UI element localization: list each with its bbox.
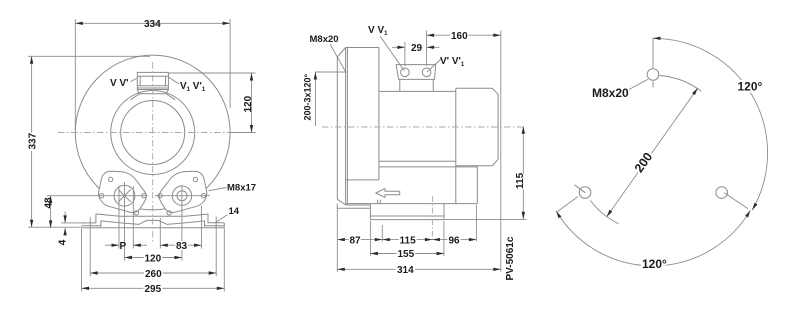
svg-text:M8x20: M8x20	[310, 34, 339, 45]
motor body	[456, 88, 498, 165]
svg-text:PV-5061c: PV-5061c	[505, 236, 516, 280]
middle bore circle	[111, 91, 195, 175]
right pad hole bottom	[167, 211, 171, 215]
260 extensions	[90, 217, 216, 277]
svg-text:120°: 120°	[738, 80, 763, 94]
diameter 200 line	[607, 88, 698, 217]
V V' leader	[131, 78, 138, 82]
14 leader	[215, 215, 227, 223]
svg-text:V V': V V'	[110, 78, 129, 89]
arc 120 top right	[653, 38, 768, 210]
side foot right edge	[443, 204, 445, 220]
295 extensions	[82, 229, 225, 292]
dim 334 extension lines	[75, 19, 230, 130]
M8x20 side leader	[330, 44, 346, 73]
top hole tick	[652, 82, 654, 88]
P extension lines	[119, 186, 133, 249]
flange bottom edge	[346, 204, 371, 206]
svg-text:V' V'1: V' V'1	[440, 56, 465, 68]
bolt hole top	[647, 69, 659, 81]
314 extensions	[337, 31, 501, 272]
M8x20 right leader	[629, 79, 648, 89]
svg-text:14: 14	[229, 206, 240, 217]
port P cross	[118, 190, 130, 202]
SIDE VIEW	[337, 48, 498, 220]
left pad hole left	[99, 194, 103, 198]
314 dim line	[337, 268, 501, 270]
centerline horizontal side view	[322, 126, 526, 128]
svg-text:334: 334	[144, 19, 161, 30]
body top	[379, 90, 456, 92]
svg-text:115: 115	[400, 235, 417, 246]
160 dim line	[427, 34, 501, 36]
svg-text:83: 83	[176, 241, 188, 252]
front view texts	[27, 19, 256, 295]
200-3x120 arrow line	[314, 72, 316, 126]
flange top edge	[346, 47, 379, 49]
V' V'1 side leader	[427, 58, 442, 72]
outer housing circle	[75, 55, 230, 210]
svg-text:120: 120	[243, 95, 254, 112]
29 dim arrows outside	[392, 46, 405, 48]
port thread lines	[137, 76, 168, 88]
svg-text:96: 96	[449, 235, 461, 246]
29 extension lines	[405, 31, 427, 67]
svg-text:337: 337	[27, 132, 38, 149]
body right edge	[455, 88, 457, 203]
dim 337 line	[31, 56, 33, 227]
side foot left edge	[369, 204, 371, 220]
svg-text:155: 155	[398, 249, 415, 260]
dim 120 right line	[251, 73, 253, 133]
base inner profile	[82, 220, 225, 226]
left pad hole top	[109, 177, 113, 181]
right pad port circle outer	[172, 186, 191, 205]
svg-text:87: 87	[350, 235, 362, 246]
83 dim line	[160, 244, 201, 246]
87 dim line	[337, 239, 382, 241]
120 bottom dim line	[125, 257, 182, 259]
port neck flare	[131, 90, 176, 100]
svg-text:29: 29	[411, 43, 423, 54]
svg-text:M8x20: M8x20	[592, 86, 629, 100]
flange front double lines	[346, 48, 348, 206]
svg-text:200-3x120°: 200-3x120°	[303, 73, 313, 120]
left foot pad	[99, 171, 147, 212]
BOLT CIRCLE VIEW	[575, 69, 728, 199]
svg-text:4: 4	[57, 239, 68, 245]
left pad hole bottom	[134, 211, 138, 215]
side port circle left	[401, 68, 410, 77]
260 dim line	[90, 272, 216, 274]
drain ticks	[378, 200, 381, 204]
svg-text:48: 48	[44, 197, 55, 209]
base bottom line	[82, 223, 225, 228]
base outer profile	[82, 214, 225, 223]
svg-text:160: 160	[451, 31, 468, 42]
svg-text:295: 295	[145, 284, 162, 295]
200-3x120 extension	[315, 71, 346, 73]
V1 V'1 leader	[168, 77, 179, 84]
right 115 dim line	[522, 126, 524, 219]
120 bottom extensions	[125, 182, 182, 261]
dim 4 extension	[61, 222, 85, 224]
dim 48 extension	[47, 195, 210, 197]
bottom lip	[337, 204, 370, 209]
side foot inner line	[370, 215, 444, 217]
side foot bottom	[370, 219, 444, 221]
flow direction arrow	[376, 189, 400, 198]
left hole tick	[575, 185, 586, 193]
flange back line	[378, 48, 380, 180]
left pad hole right	[142, 194, 146, 198]
flange chamfer top	[337, 48, 345, 58]
inner bore circle	[121, 101, 185, 165]
flange chamfer bottom	[337, 199, 345, 205]
body seam lower	[379, 166, 477, 168]
left hole radial	[557, 197, 579, 213]
side port circle right	[422, 68, 431, 77]
flange block bottom	[346, 179, 379, 181]
right 115 extension	[444, 218, 526, 220]
right pad hole top	[193, 177, 197, 181]
svg-text:120°: 120°	[642, 257, 667, 271]
svg-text:V V1: V V1	[368, 25, 388, 37]
83 extension lines	[160, 206, 201, 249]
top port block trapezoid	[396, 65, 436, 80]
155 dim line	[370, 253, 444, 255]
bolt hole left	[579, 187, 591, 199]
M8x17 leader	[209, 188, 227, 191]
centerline mount hole side view	[431, 196, 433, 242]
right foot pad	[159, 171, 207, 212]
svg-text:P: P	[120, 241, 127, 252]
dim 337 extensions	[28, 56, 150, 227]
right pad port circle inner	[177, 191, 187, 201]
body seam upper	[379, 160, 456, 162]
body bottom	[346, 203, 477, 205]
87 115 96 extensions	[370, 205, 476, 256]
right pad hole left	[158, 194, 162, 198]
P dim arrows outside	[105, 244, 119, 246]
flange face line	[336, 57, 338, 199]
dim 120 right extensions	[168, 73, 255, 133]
svg-text:260: 260	[145, 269, 162, 280]
rear housing lower	[476, 166, 478, 204]
svg-text:V1 V'1: V1 V'1	[180, 81, 206, 93]
left pad port circle P	[114, 185, 135, 206]
top port block	[137, 72, 168, 89]
top port neck	[400, 79, 433, 91]
svg-text:M8x17: M8x17	[227, 183, 256, 194]
top hole radial line	[652, 38, 654, 69]
295 dim line	[82, 287, 225, 289]
V V1 side leader	[380, 36, 405, 71]
bolt hole right	[716, 187, 728, 199]
115 dim line	[382, 239, 432, 241]
arc 120 bottom	[556, 210, 750, 266]
bolt circle arc top segment	[660, 76, 702, 92]
right hole radial	[724, 193, 748, 209]
dim 4 arrows	[64, 212, 66, 223]
centerline vertical front view	[152, 62, 154, 243]
side view texts	[303, 25, 527, 281]
dim 48 line	[50, 196, 52, 228]
dim 334 line	[75, 22, 230, 24]
right pad hole right	[201, 194, 205, 198]
svg-text:314: 314	[397, 265, 414, 276]
svg-text:115: 115	[515, 172, 526, 189]
bolt circle arc lower segment	[590, 200, 618, 223]
96 dim line	[432, 239, 476, 241]
svg-text:120: 120	[145, 253, 162, 264]
centerline horizontal front view	[58, 132, 247, 134]
